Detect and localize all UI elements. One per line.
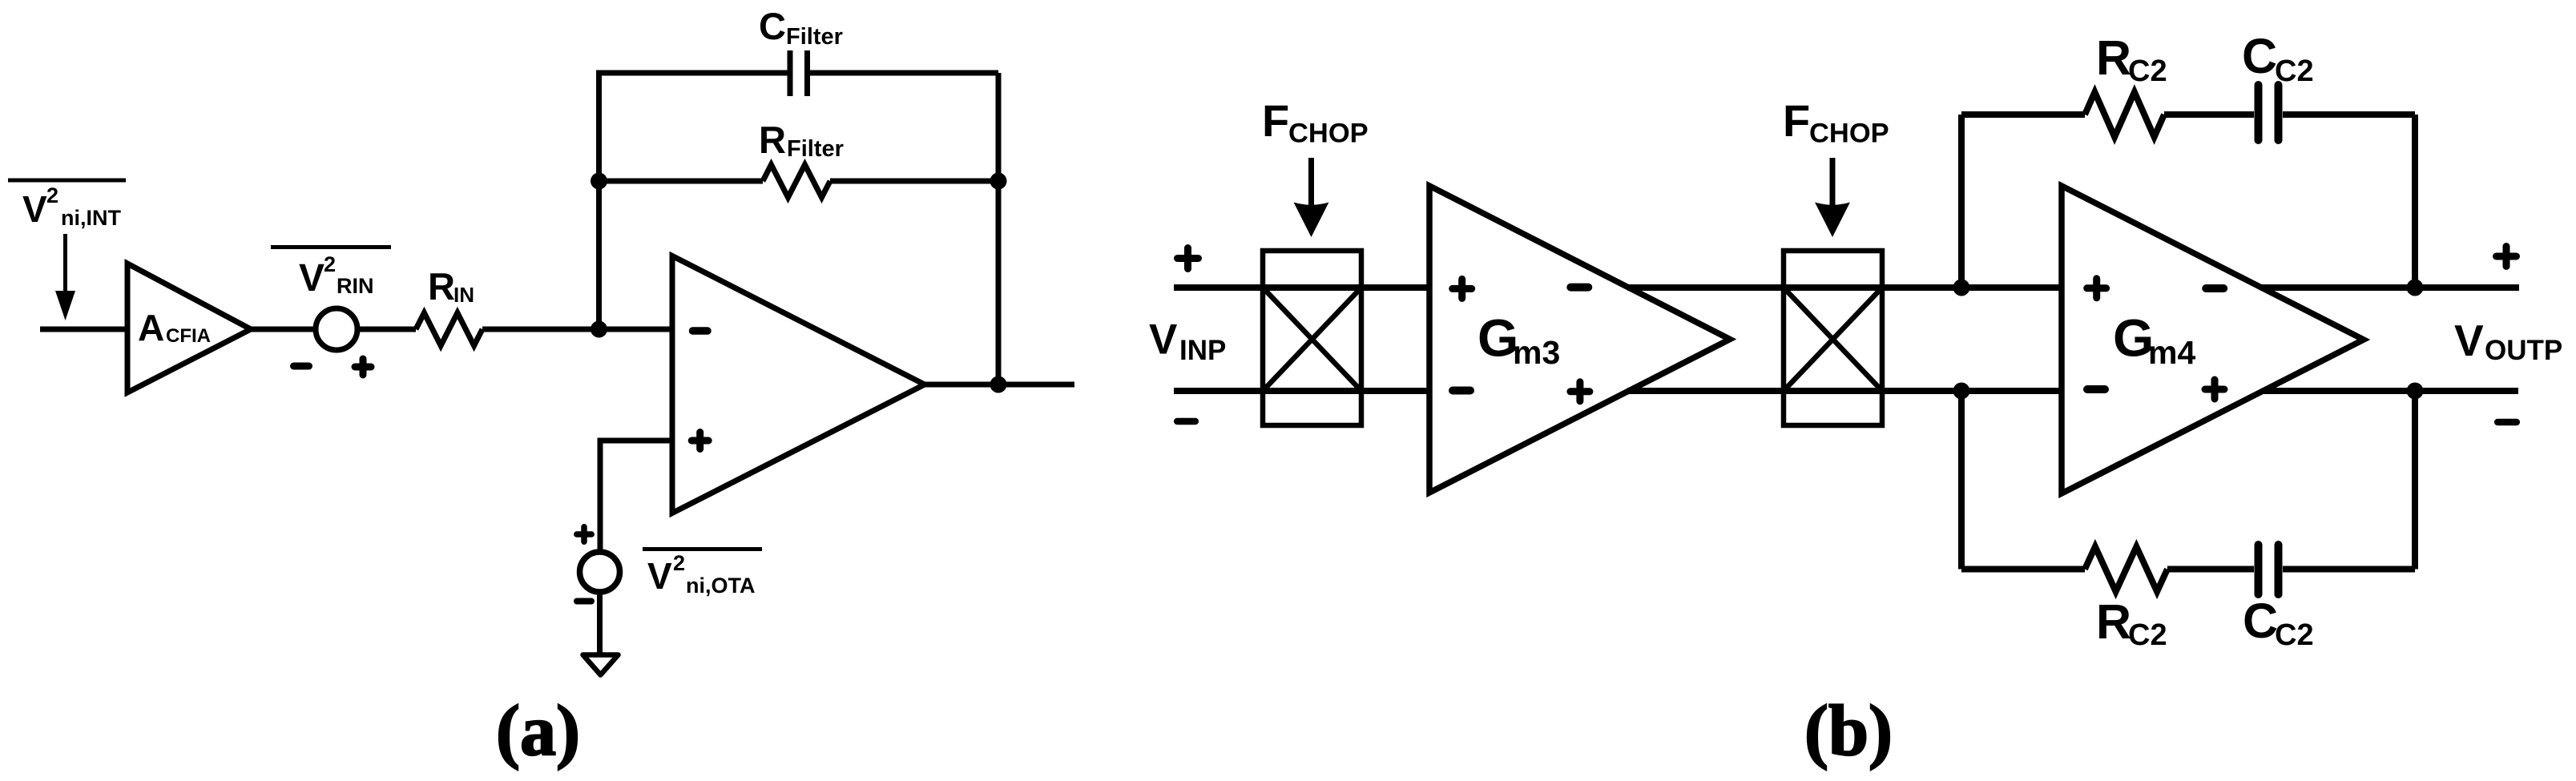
svg-text:INP: INP xyxy=(1179,335,1226,366)
arrow F_CHOP left xyxy=(1294,158,1329,237)
wire R_IN to op-amp inverting input xyxy=(482,327,672,332)
resistor R_IN xyxy=(416,265,482,346)
svg-text:CHOP: CHOP xyxy=(1809,119,1889,149)
arrow F_CHOP right xyxy=(1815,158,1850,237)
svg-text:C2: C2 xyxy=(2128,54,2167,88)
junction top feedback left xyxy=(1953,280,1970,296)
svg-text:RIN: RIN xyxy=(337,274,374,298)
svg-text:CFIA: CFIA xyxy=(166,325,211,347)
wire V2ni,OTA to ground xyxy=(597,591,603,654)
capacitor C_Filter feedback xyxy=(596,5,998,96)
svg-text:CHOP: CHOP xyxy=(1288,119,1369,149)
svg-text:V: V xyxy=(1149,316,1177,364)
svg-text:ni,INT: ni,INT xyxy=(61,206,121,230)
capacitor C_C2 top xyxy=(2164,29,2415,140)
wire bottom feedback right vertical xyxy=(2412,391,2418,570)
resistor R_Filter feedback xyxy=(599,119,999,198)
label F_CHOP right xyxy=(1783,95,1889,149)
wire top feedback right vertical xyxy=(2412,115,2418,288)
junction output top xyxy=(2407,280,2424,296)
svg-text:(b): (b) xyxy=(1804,691,1893,771)
chopper CH1 xyxy=(1263,251,1361,425)
wire G_m3 to CH2 bottom xyxy=(1627,388,2062,394)
svg-text:IN: IN xyxy=(454,283,474,307)
wire input to A_CFIA xyxy=(40,327,127,332)
node V_INP label xyxy=(1149,316,1226,367)
capacitor C_C2 bottom xyxy=(2167,545,2415,652)
svg-text:C2: C2 xyxy=(2128,618,2167,652)
svg-text:C: C xyxy=(759,5,786,47)
label - input polarity xyxy=(1177,418,1195,425)
svg-text:C2: C2 xyxy=(2275,618,2314,652)
svg-text:Filter: Filter xyxy=(787,136,844,162)
label + input polarity xyxy=(1178,248,1199,269)
svg-text:R: R xyxy=(428,265,455,308)
svg-text:2: 2 xyxy=(46,183,58,207)
wire A_CFIA to noise source xyxy=(251,327,316,332)
junction output bottom xyxy=(2407,383,2424,400)
wire top feedback left vertical xyxy=(1958,115,1965,288)
node V2ni,INT noise label xyxy=(8,180,126,230)
svg-text:V: V xyxy=(299,257,325,300)
svg-text:m4: m4 xyxy=(2148,334,2195,371)
label + output polarity xyxy=(2497,247,2517,267)
svg-text:R: R xyxy=(759,119,786,161)
resistor R_C2 bottom xyxy=(1961,547,2167,653)
wire input top rail xyxy=(1174,284,1429,291)
wire op-amp noninverting input xyxy=(600,438,672,444)
svg-text:2: 2 xyxy=(324,252,336,276)
svg-text:C: C xyxy=(2243,594,2278,648)
svg-text:(a): (a) xyxy=(496,691,580,771)
wire G_m3 to CH2 top xyxy=(1627,284,2062,291)
svg-text:F: F xyxy=(1262,95,1289,146)
label - output polarity xyxy=(2497,419,2517,426)
junction R_Filter left xyxy=(591,173,607,190)
amplifier A_CFIA xyxy=(127,264,251,393)
noise source V2ni,OTA xyxy=(577,527,762,602)
wire bottom feedback left vertical xyxy=(1958,391,1965,570)
junction bottom feedback left xyxy=(1953,383,1970,400)
svg-text:C2: C2 xyxy=(2275,54,2314,88)
resistor R_C2 top xyxy=(1961,30,2167,137)
op-amp U1 xyxy=(672,256,925,513)
svg-text:m3: m3 xyxy=(1513,334,1560,371)
svg-text:2: 2 xyxy=(673,551,685,575)
svg-text:OUTP: OUTP xyxy=(2485,335,2562,366)
arrow noise injection into input xyxy=(55,234,75,320)
wire G_m4 output top xyxy=(2260,284,2519,291)
svg-text:R: R xyxy=(2096,594,2131,649)
svg-text:ni,OTA: ni,OTA xyxy=(686,574,755,598)
noise source V2RIN xyxy=(271,248,391,376)
svg-text:Filter: Filter xyxy=(786,24,843,50)
junction output feedback xyxy=(990,376,1007,393)
svg-text:R: R xyxy=(2096,30,2131,85)
label F_CHOP left xyxy=(1262,95,1369,149)
wire input bottom rail xyxy=(1174,388,1429,394)
amplifier G_m4 xyxy=(2062,186,2364,493)
wire down to V2ni,OTA source xyxy=(598,438,603,554)
wire noise source to R_IN xyxy=(357,327,416,332)
svg-text:C: C xyxy=(2242,29,2277,83)
svg-text:F: F xyxy=(1783,95,1810,146)
svg-text:V: V xyxy=(647,555,672,597)
amplifier G_m3 xyxy=(1429,186,1730,493)
wire G_m4 output bottom xyxy=(2262,388,2518,394)
svg-text:A: A xyxy=(138,307,164,348)
wire feedback left vertical xyxy=(596,73,602,329)
junction R_Filter right xyxy=(990,173,1007,190)
wire op-amp output xyxy=(925,382,1074,388)
ground xyxy=(583,655,619,675)
svg-text:V: V xyxy=(2454,316,2484,365)
wire feedback right vertical xyxy=(996,73,1002,384)
junction node inverting input xyxy=(591,321,607,338)
svg-text:V: V xyxy=(22,188,47,230)
node V_OUTP label xyxy=(2454,316,2562,366)
chopper CH2 xyxy=(1784,251,1882,425)
